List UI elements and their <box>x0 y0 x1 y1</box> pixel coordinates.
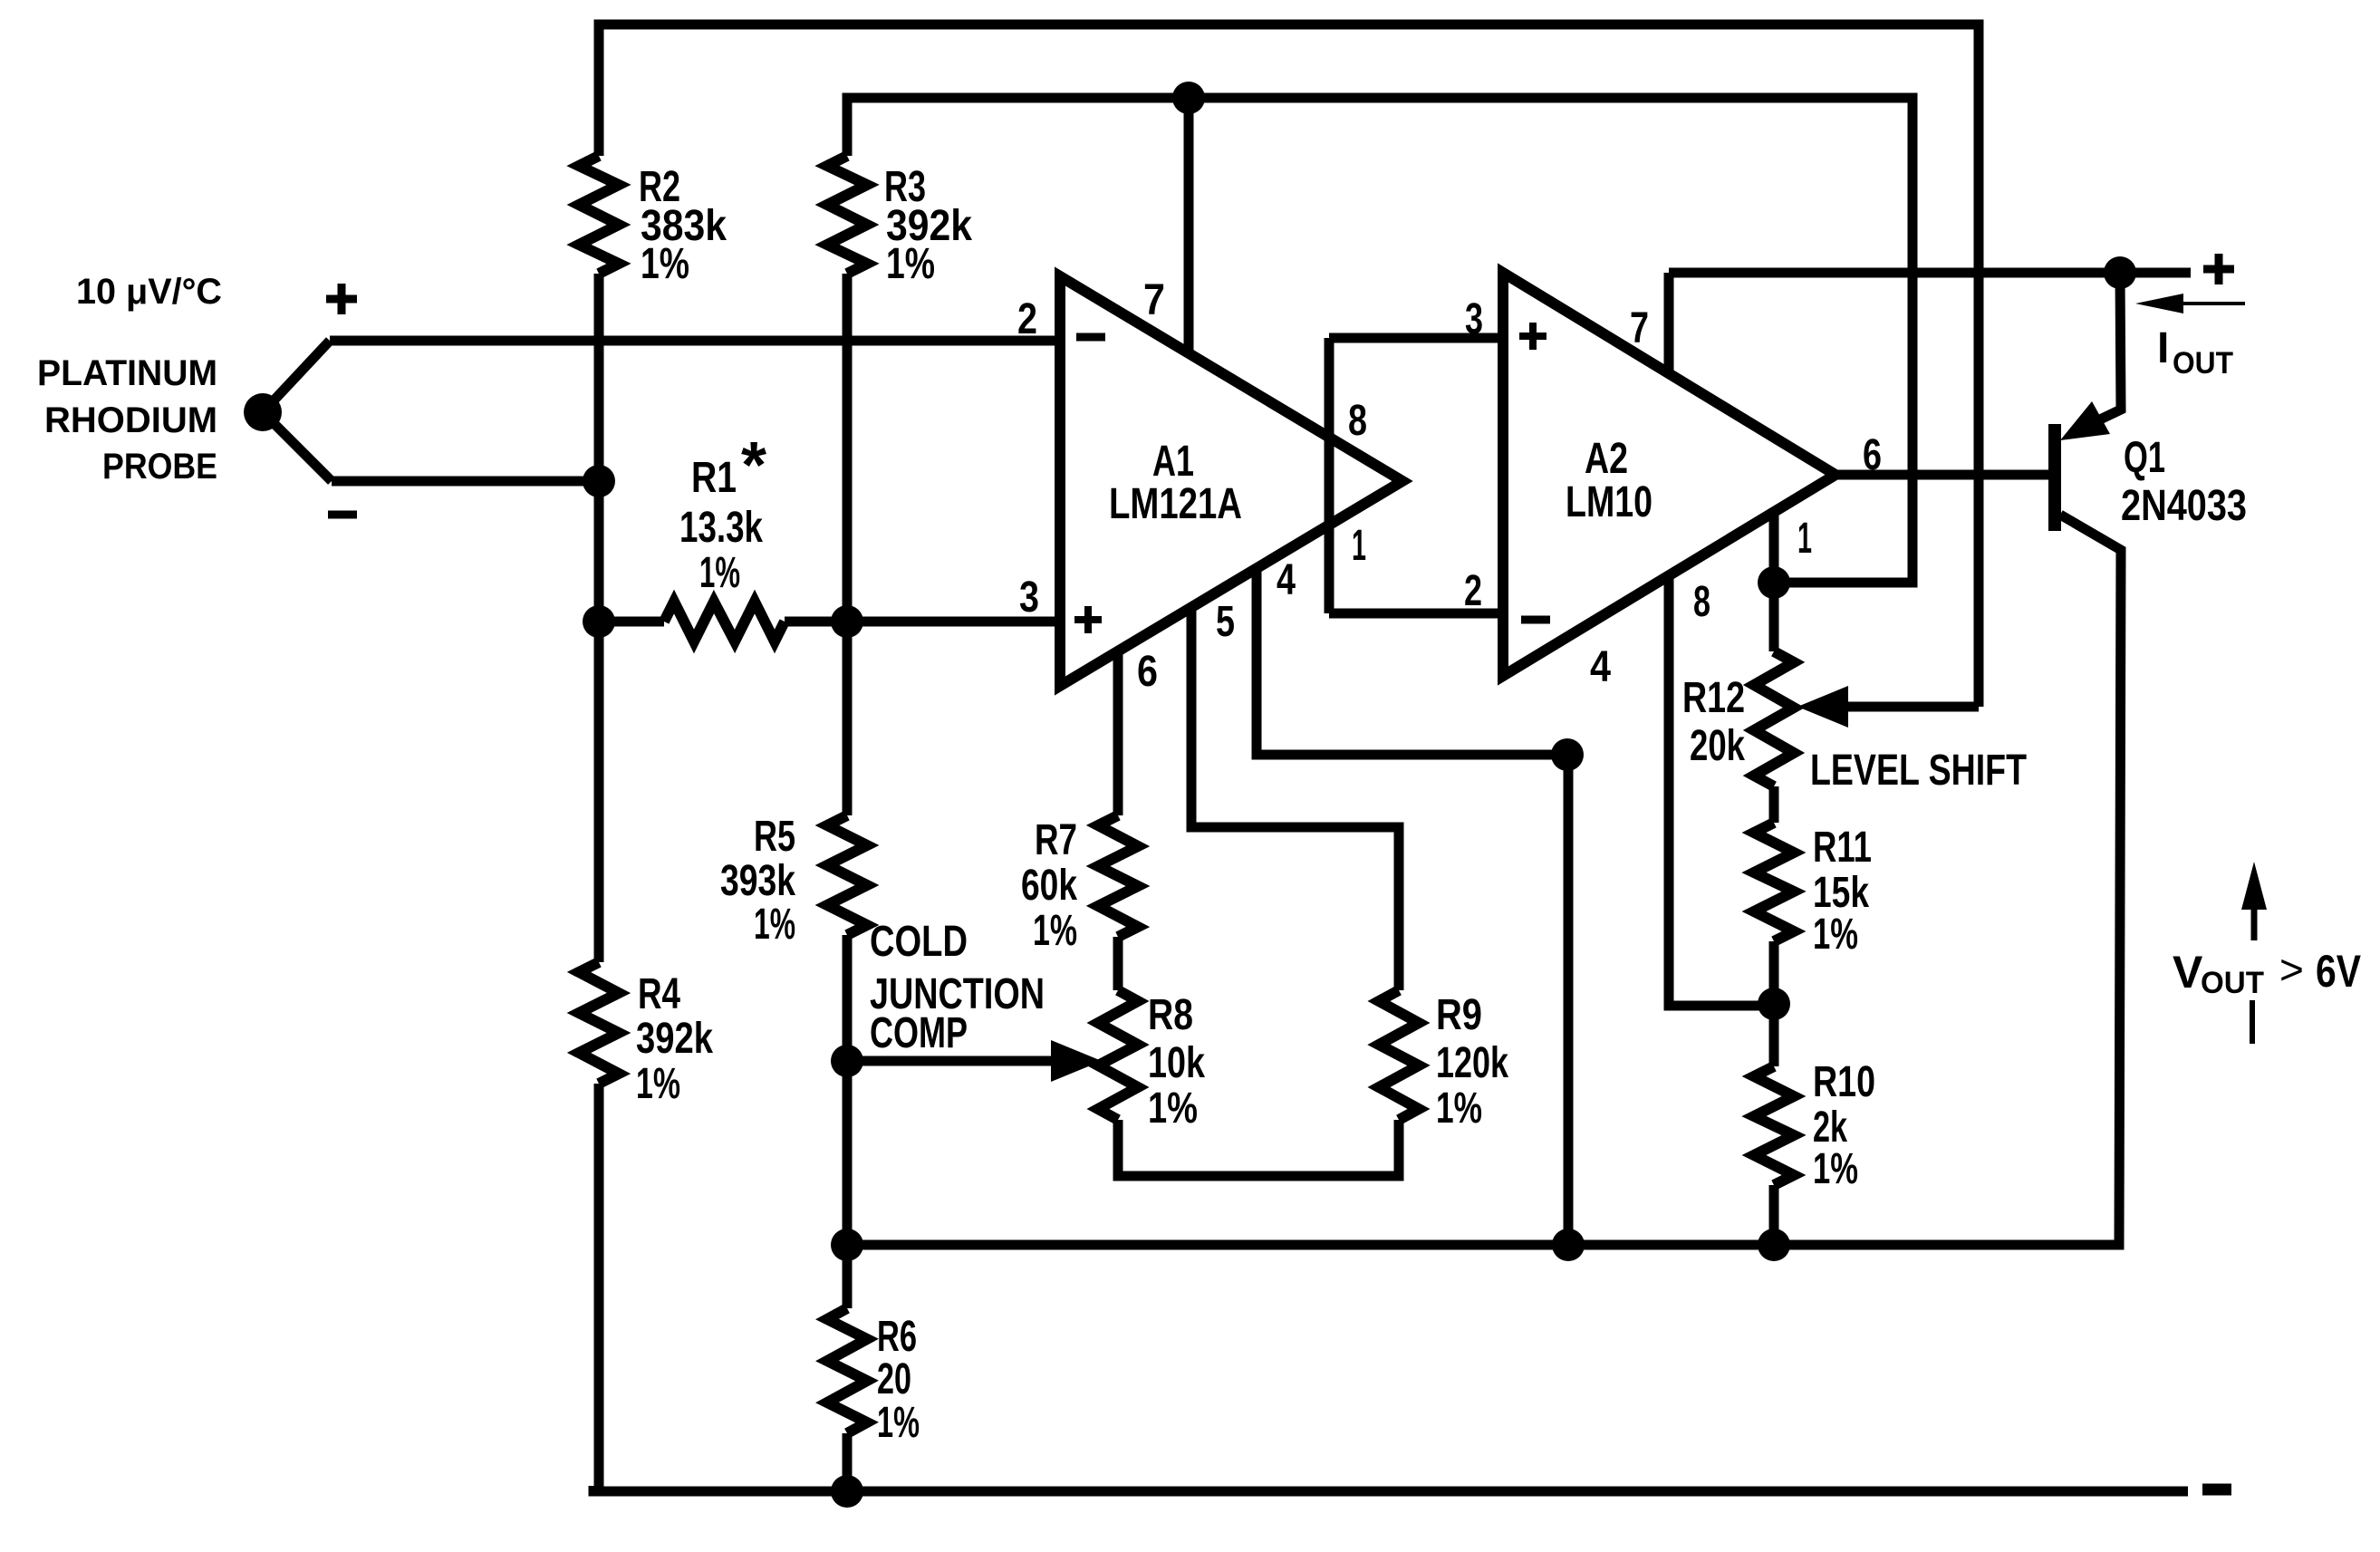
pin 5 label A1 <box>1216 598 1235 646</box>
potentiometer R8 10k 1% <box>1098 990 1138 1120</box>
svg-text:R9: R9 <box>1436 991 1482 1039</box>
svg-text:3: 3 <box>1019 574 1039 622</box>
node cold junction tap dot <box>831 1045 863 1077</box>
probe terminal dot (platinum rhodium probe) <box>244 393 282 431</box>
Q1 collector wire <box>2060 515 2121 1245</box>
svg-text:1%: 1% <box>641 240 689 288</box>
label R7 <box>1021 816 1077 955</box>
pin 1 label A2 <box>1797 515 1812 563</box>
A2 non-inverting plus sign <box>1519 323 1547 350</box>
pin 2 label A1 <box>1017 295 1037 343</box>
svg-text:1%: 1% <box>636 1060 680 1108</box>
pin 3 label A1 <box>1019 574 1039 622</box>
label R12 20k <box>1682 674 1745 770</box>
label R6 <box>877 1313 920 1447</box>
wire A2 pin7 bus to + output terminal <box>1669 268 2191 278</box>
label R3 <box>884 163 972 288</box>
wire probe - lead diagonal <box>263 412 332 481</box>
wire R9 top to A1 pin 5 <box>1191 606 1399 990</box>
wire R6 bottom lead <box>843 1433 853 1491</box>
svg-text:RHODIUM: RHODIUM <box>44 400 217 440</box>
label R1* <box>679 429 766 597</box>
label A2 LM10 <box>1566 435 1653 526</box>
wire A2 pin 7 stub <box>1664 273 1674 374</box>
svg-text:6: 6 <box>1137 648 1158 696</box>
V_OUT lower tick <box>2250 1000 2255 1044</box>
resistor R3 392k 1% <box>827 156 867 274</box>
wire A1 pin 4 down and right to A2 pin4 column <box>1257 568 1567 755</box>
label PLATINUM RHODIUM PROBE <box>37 353 217 487</box>
svg-text:1%: 1% <box>754 901 795 949</box>
R12 wiper arrowhead <box>1797 686 1848 728</box>
svg-text:8: 8 <box>1693 578 1710 626</box>
wire R12 top lead from pin1 node <box>1769 583 1779 651</box>
node R11/R10 junction dot <box>1758 988 1790 1020</box>
label I_OUT <box>2157 324 2233 381</box>
svg-text:1%: 1% <box>1813 1145 1858 1193</box>
node junction dot on second bus feeding A1 pin 7 <box>1172 82 1205 114</box>
wire top feedback bus (node at top, R2 top to upper-right corner) <box>599 24 1979 30</box>
svg-text:Q1: Q1 <box>2124 434 2165 482</box>
svg-text:>: > <box>2279 946 2304 993</box>
resistor R5 393k 1% <box>827 815 867 935</box>
op-amp A2 LM10 triangle <box>1503 273 1836 676</box>
svg-text:7: 7 <box>1143 276 1165 324</box>
svg-text:LM121A: LM121A <box>1109 480 1242 528</box>
svg-text:1%: 1% <box>1436 1084 1482 1133</box>
V_OUT up arrow <box>2241 862 2267 940</box>
svg-text:1%: 1% <box>886 240 935 288</box>
node A2 pin4 column junction dot <box>1551 738 1584 771</box>
wire second top bus (R3 top to right corner above A2) <box>847 98 1913 103</box>
op-amp A1 LM121A triangle <box>1060 276 1402 686</box>
svg-text:OUT: OUT <box>2201 966 2264 1000</box>
pin 7 label A2 <box>1630 304 1649 352</box>
label R4 <box>636 970 713 1108</box>
node R1 right junction dot <box>831 605 863 638</box>
wire A2 pin 8 down <box>1669 574 1774 1006</box>
svg-text:1%: 1% <box>1033 907 1077 955</box>
pin 4 label A1 <box>1277 556 1296 604</box>
wire bottom bus (V- return) <box>593 1486 2188 1491</box>
- output terminal <box>2202 1484 2231 1496</box>
svg-text:6V: 6V <box>2316 946 2362 997</box>
node R6 at bottom bus junction dot <box>831 1475 863 1508</box>
node R1 left junction dot <box>583 605 615 638</box>
label R8 <box>1148 991 1205 1133</box>
svg-text:120k: 120k <box>1436 1039 1508 1087</box>
label V_OUT > 6V <box>2173 946 2362 1000</box>
svg-text:PLATINUM: PLATINUM <box>37 353 217 393</box>
node R10 at bus junction dot <box>1758 1229 1790 1261</box>
pin 8 label A2 <box>1693 578 1710 626</box>
svg-text:R4: R4 <box>638 970 680 1018</box>
svg-text:R12: R12 <box>1682 674 1745 722</box>
wire R7 to R8 <box>1113 937 1123 990</box>
label R11 <box>1813 824 1872 959</box>
wire R1 right lead <box>785 617 847 627</box>
svg-text:8: 8 <box>1348 397 1367 445</box>
A1 inverting input minus sign <box>1076 333 1105 342</box>
svg-text:20: 20 <box>877 1355 911 1403</box>
svg-text:10k: 10k <box>1148 1039 1205 1087</box>
svg-text:COLD: COLD <box>870 918 968 966</box>
wire A1 pin 3 input <box>847 617 1060 627</box>
resistor R11 15k 1% <box>1754 823 1794 941</box>
node A2 pin1 junction dot <box>1758 566 1790 599</box>
svg-text:2: 2 <box>1464 567 1482 615</box>
cold junction arrowhead into R8 <box>1051 1040 1102 1082</box>
wire A1 pin 7 vertical from top bus to A1 <box>1184 98 1194 355</box>
A1 non-inverting input plus sign <box>1074 606 1102 633</box>
A2 inverting minus sign <box>1521 616 1550 624</box>
probe - polarity <box>328 511 357 519</box>
I_OUT arrow <box>2135 294 2245 313</box>
svg-text:OUT: OUT <box>2173 346 2233 381</box>
svg-text:2: 2 <box>1017 295 1037 343</box>
svg-text:V: V <box>2173 947 2203 998</box>
pin 6 label A1 <box>1137 648 1158 696</box>
Q1 emitter wire <box>2100 273 2121 419</box>
label A1 LM121A <box>1109 438 1242 528</box>
resistor R4 392k 1% <box>579 962 619 1084</box>
svg-text:1%: 1% <box>1813 911 1858 959</box>
wire left column middle (R2 bottom through probe nodes to R4) <box>594 274 604 962</box>
node A2 pin4 at bus junction dot <box>1552 1229 1585 1261</box>
resistor R6 20 1% <box>827 1308 867 1433</box>
svg-text:LM10: LM10 <box>1566 478 1653 526</box>
wire A2 pin 1 stub to node <box>1769 511 1779 583</box>
svg-text:60k: 60k <box>1021 862 1077 910</box>
svg-text:*: * <box>741 429 766 502</box>
resistor R7 60k 1% <box>1098 815 1138 937</box>
svg-text:13.3k: 13.3k <box>679 504 763 552</box>
svg-text:I: I <box>2157 324 2169 372</box>
svg-text:R6: R6 <box>877 1313 917 1361</box>
pin 2 label A2 <box>1464 567 1482 615</box>
wire R11 bottom lead <box>1769 941 1779 1004</box>
potentiometer R12 20k <box>1754 651 1794 786</box>
transistor Q1 2N4033 base bar <box>2048 424 2061 531</box>
resistor R1 13.3k 1% <box>664 602 785 641</box>
node R5/R6 at bus junction dot <box>831 1229 863 1261</box>
wire A1 outputs vertical (pins 8 and 1) to A2 inputs <box>1325 338 1335 613</box>
svg-text:R10: R10 <box>1813 1058 1875 1106</box>
label R9 <box>1436 991 1508 1133</box>
wire R1 left lead <box>599 617 664 627</box>
wire cold junction comp wiper <box>847 1056 1085 1066</box>
probe + polarity <box>326 284 357 314</box>
wire A1 pin1 to A2 pin 2 (-) <box>1329 609 1503 619</box>
wire R3 top lead <box>843 98 853 156</box>
svg-text:A2: A2 <box>1585 435 1628 483</box>
wire A1 pin 6 lead down <box>1113 651 1123 815</box>
label LEVEL SHIFT <box>1810 747 2027 795</box>
svg-text:R7: R7 <box>1035 816 1077 864</box>
svg-text:2N4033: 2N4033 <box>2121 482 2247 530</box>
Q1 emitter arrowhead (PNP) <box>2060 401 2110 440</box>
resistor R9 120k 1% <box>1379 990 1419 1120</box>
svg-text:392k: 392k <box>636 1015 713 1063</box>
wire probe + lead diagonal <box>263 341 330 412</box>
svg-text:LEVEL SHIFT: LEVEL SHIFT <box>1810 747 2027 795</box>
pin 1 label A1 <box>1352 522 1366 570</box>
resistor R10 2k 1% <box>1754 1066 1794 1185</box>
wire mid bus (V- supply row) <box>847 1239 2119 1245</box>
svg-text:4: 4 <box>1277 556 1296 604</box>
svg-text:R8: R8 <box>1148 991 1193 1039</box>
wire A1 pin8 to A2 pin 3 (+) <box>1329 333 1503 343</box>
svg-text:1: 1 <box>1352 522 1366 570</box>
svg-text:1%: 1% <box>699 549 740 597</box>
label 10uV/C <box>76 272 222 312</box>
wire - input to left column <box>332 477 599 487</box>
wire R5 bottom to bottom bus (through cold-junction node) <box>843 935 853 1308</box>
wire level-shift wiper to right column <box>1848 702 1979 712</box>
svg-text:1%: 1% <box>1148 1084 1198 1133</box>
svg-text:R11: R11 <box>1813 824 1872 872</box>
svg-text:5: 5 <box>1216 598 1235 646</box>
label R10 <box>1813 1058 1875 1193</box>
svg-text:20k: 20k <box>1690 722 1745 770</box>
svg-text:PROBE: PROBE <box>102 447 217 487</box>
svg-text:7: 7 <box>1630 304 1649 352</box>
svg-text:R1: R1 <box>691 454 737 502</box>
label COLD JUNCTION COMP <box>870 918 1045 1057</box>
label R5 <box>720 813 795 949</box>
wire A2 output pin 6 to Q1 base <box>1836 470 2049 480</box>
label Q1 2N4033 <box>2121 434 2247 530</box>
node - input junction dot <box>583 465 615 497</box>
svg-text:393k: 393k <box>720 857 795 905</box>
pin 4 label A2 <box>1590 643 1611 691</box>
pin 8 label A1 <box>1348 397 1367 445</box>
wire R10 top lead <box>1769 1004 1779 1066</box>
wire right outer column from top bus down to wiper <box>1974 24 1984 707</box>
svg-text:R5: R5 <box>754 813 795 861</box>
svg-text:A1: A1 <box>1152 438 1194 486</box>
pin 6 label A2 <box>1863 431 1882 479</box>
wire left column upper (R2 top lead) <box>594 24 604 156</box>
resistor R2 383k 1% <box>579 156 619 274</box>
wire left column lower (R4 bottom to bottom bus) <box>594 1084 604 1491</box>
wire R3 bottom to R5 top (through + input crossing and R1 node) <box>843 274 853 815</box>
+ output terminal <box>2203 254 2234 284</box>
svg-text:10 μV/°C: 10 μV/°C <box>76 272 222 312</box>
wire pin1 node right and up to second top bus <box>1774 103 1913 583</box>
wire R12 to R11 <box>1769 786 1779 823</box>
label R2 <box>639 163 727 288</box>
wire R10 bottom lead to bus <box>1769 1185 1779 1245</box>
wire A2 pin 4 column down to bus <box>1564 755 1574 1245</box>
pin 7 label A1 <box>1143 276 1165 324</box>
wire + input to A1 pin 2 <box>330 336 1060 346</box>
svg-text:1%: 1% <box>877 1399 920 1447</box>
pin 3 label A2 <box>1465 295 1483 343</box>
svg-text:3: 3 <box>1465 295 1483 343</box>
node emitter junction dot <box>2104 256 2136 289</box>
svg-text:COMP: COMP <box>870 1009 968 1057</box>
wire R8 bottom corner to R9 bottom <box>1118 1120 1399 1176</box>
svg-text:4: 4 <box>1590 643 1611 691</box>
svg-text:1: 1 <box>1797 515 1812 563</box>
